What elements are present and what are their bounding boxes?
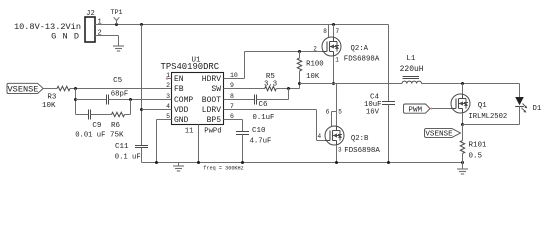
svg-text:3: 3 (166, 93, 170, 100)
svg-text:SW: SW (211, 85, 221, 94)
svg-text:VSENSE: VSENSE (8, 85, 39, 95)
svg-text:3.3: 3.3 (264, 80, 277, 88)
svg-text:Q2:A: Q2:A (351, 45, 369, 53)
svg-text:VDD: VDD (174, 106, 189, 115)
svg-text:7: 7 (336, 28, 340, 35)
svg-text:0.01 uF: 0.01 uF (75, 132, 105, 140)
svg-text:IRLML2502: IRLML2502 (468, 113, 507, 121)
svg-text:C10: C10 (252, 127, 266, 135)
svg-text:R3: R3 (47, 94, 57, 102)
svg-text:FDS6898A: FDS6898A (344, 56, 380, 64)
svg-text:2: 2 (98, 30, 102, 38)
svg-text:1: 1 (98, 19, 102, 27)
svg-text:PwPd: PwPd (204, 128, 221, 136)
svg-text:16V: 16V (366, 109, 380, 117)
svg-text:R6: R6 (111, 122, 121, 130)
svg-text:TPS40190DRC: TPS40190DRC (161, 62, 220, 72)
svg-text:220uH: 220uH (400, 65, 424, 74)
svg-text:4.7uF: 4.7uF (250, 137, 272, 145)
svg-text:6: 6 (326, 109, 330, 116)
svg-text:BP5: BP5 (207, 116, 222, 125)
svg-text:0.5: 0.5 (469, 153, 483, 161)
svg-text:VSENSE: VSENSE (425, 131, 453, 139)
svg-text:TP1: TP1 (110, 9, 122, 17)
svg-text:EN: EN (174, 75, 184, 84)
svg-text:GND: GND (51, 32, 85, 42)
svg-text:C6: C6 (259, 101, 269, 109)
svg-text:COMP: COMP (174, 96, 193, 105)
svg-text:BOOT: BOOT (202, 96, 221, 105)
svg-text:10K: 10K (306, 73, 320, 81)
svg-text:8: 8 (323, 28, 327, 35)
svg-text:2: 2 (313, 46, 317, 53)
svg-text:0.1uF: 0.1uF (253, 114, 275, 122)
svg-text:C5: C5 (113, 77, 123, 85)
svg-text:R100: R100 (306, 61, 324, 69)
svg-text:4: 4 (318, 133, 322, 140)
svg-text:3: 3 (338, 147, 342, 154)
svg-text:L1: L1 (406, 55, 416, 63)
svg-text:10K: 10K (42, 102, 56, 110)
svg-text:LDRV: LDRV (202, 106, 221, 115)
svg-text:FDS6898A: FDS6898A (344, 147, 380, 155)
svg-text:Q1: Q1 (478, 102, 488, 110)
svg-text:1: 1 (335, 57, 339, 64)
svg-text:D1: D1 (533, 105, 542, 113)
svg-text:2: 2 (166, 82, 170, 89)
svg-text:R101: R101 (469, 142, 488, 150)
svg-text:HDRV: HDRV (202, 75, 221, 84)
svg-text:Q2:B: Q2:B (351, 135, 369, 143)
svg-text:C9: C9 (92, 122, 101, 130)
svg-text:68pF: 68pF (111, 91, 129, 99)
svg-text:75K: 75K (110, 132, 124, 140)
svg-text:C11: C11 (115, 143, 129, 151)
svg-text:freq = 300KHz: freq = 300KHz (203, 166, 243, 172)
svg-text:PWM: PWM (408, 106, 422, 114)
svg-text:0.1 uF: 0.1 uF (115, 154, 141, 162)
svg-text:FB: FB (174, 85, 184, 94)
svg-text:5: 5 (338, 109, 342, 116)
svg-text:11: 11 (185, 127, 193, 135)
svg-text:GND: GND (174, 116, 189, 125)
